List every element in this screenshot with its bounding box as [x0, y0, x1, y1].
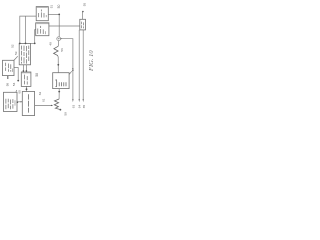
text U2 dashes: [38, 26, 46, 34]
text U9 dashes: [82, 22, 84, 29]
svg-text:54: 54: [12, 82, 16, 86]
wire VCO to box5 stub A: [22, 65, 24, 72]
wire box4 right to dot: [14, 68, 18, 81]
svg-text:49: 49: [49, 42, 53, 46]
block U4 reference osc: [3, 60, 15, 75]
svg-text:55: 55: [83, 3, 87, 7]
svg-text:64: 64: [78, 105, 82, 109]
block U9 load: [80, 19, 86, 30]
svg-text:51: 51: [49, 5, 53, 9]
thick top edge U2: [36, 23, 48, 25]
svg-text:56: 56: [60, 48, 64, 52]
arrowhead at resistor R2: [51, 105, 53, 106]
arrowhead into U7: [21, 101, 23, 102]
wire box5 to box7: [26, 86, 28, 91]
wire VCO top extension: [31, 42, 35, 44]
svg-text:65: 65: [82, 105, 86, 109]
text U4 dashes: [6, 63, 13, 72]
junction dot R2 end: [60, 109, 62, 111]
block U7 microcomputer: [22, 92, 34, 116]
svg-text:52: 52: [11, 44, 15, 48]
leader line label 57: [69, 71, 72, 74]
summing node S1: [57, 37, 61, 41]
svg-text:57: 57: [71, 68, 75, 72]
wire box1-right to node: [48, 14, 59, 16]
wire box8 bottom to R2: [58, 89, 60, 99]
svg-text:61: 61: [42, 98, 46, 102]
svg-text:50: 50: [57, 5, 61, 9]
svg-text:63: 63: [72, 105, 76, 109]
wire parallel branch down: [25, 16, 27, 43]
arrowhead down wire A: [72, 99, 73, 102]
junction dot at node T: [58, 14, 60, 16]
wire VCO to box5 stub B: [25, 65, 27, 72]
leader line label 53: [14, 56, 18, 60]
junction dot left: [19, 43, 21, 45]
junction dot box5-box7: [26, 88, 28, 90]
wire box9 lead B down: [78, 30, 80, 99]
wire box2-left stub down: [35, 30, 36, 44]
junction dot stub A: [23, 70, 25, 72]
junction dot below box8: [58, 91, 60, 93]
resistor R2 zigzag: [54, 99, 59, 109]
junction dot box4 wire end: [17, 80, 19, 82]
thick top edge U5: [22, 72, 31, 74]
junction dot box9 stub: [82, 11, 84, 13]
arrowhead into summing node: [61, 38, 63, 39]
block U5 phase comparator: [21, 72, 31, 86]
wire box4 bottom stub: [7, 76, 9, 79]
wire box9 top stub: [82, 12, 84, 19]
leader line label 60: [15, 90, 17, 94]
text U6 dashes: [6, 99, 15, 110]
svg-text:53: 53: [14, 51, 18, 55]
svg-text:62: 62: [38, 92, 42, 96]
block U6 key input: [4, 92, 18, 111]
block U2 high-freq amp 2: [36, 23, 49, 36]
wire summing node bottom: [57, 41, 59, 47]
arrowhead down wire C: [83, 99, 84, 102]
block U3 VCO: [19, 43, 30, 64]
resistor R1 zigzag: [54, 46, 59, 56]
text U7 dashes: [27, 94, 29, 112]
block U8 discriminator: [53, 73, 69, 89]
junction dot stub B: [26, 70, 28, 72]
wire R1 to box8: [57, 56, 59, 72]
arrowhead down wire B: [79, 99, 80, 102]
svg-text:60: 60: [18, 90, 22, 94]
glyphs in U8: [56, 80, 67, 87]
svg-text:58: 58: [35, 73, 39, 77]
wire box9 lead C down: [82, 30, 84, 99]
thick top edge U1: [37, 6, 48, 8]
text U5 dashes: [24, 75, 27, 85]
text U1 dashes: [39, 10, 47, 18]
wire box7 right control arrow: [35, 104, 52, 106]
wire summing node right then down: [61, 39, 73, 99]
wire vertical into summing node: [58, 14, 60, 37]
junction dot above box8: [57, 64, 59, 66]
text U3 dashes: [22, 46, 29, 64]
svg-text:59: 59: [64, 112, 68, 116]
wire box6 to box7: [17, 101, 22, 103]
block U1 high-freq amp 1: [36, 7, 48, 21]
wire box2-right to box9: [49, 25, 80, 27]
junction dot box6 right: [17, 101, 19, 103]
wire box1-left to VCO top: [20, 16, 36, 43]
junction dot mid: [25, 43, 27, 45]
junction dot right: [34, 43, 36, 45]
svg-text:FIG. 10: FIG. 10: [88, 50, 95, 72]
svg-text:58: 58: [5, 83, 9, 87]
